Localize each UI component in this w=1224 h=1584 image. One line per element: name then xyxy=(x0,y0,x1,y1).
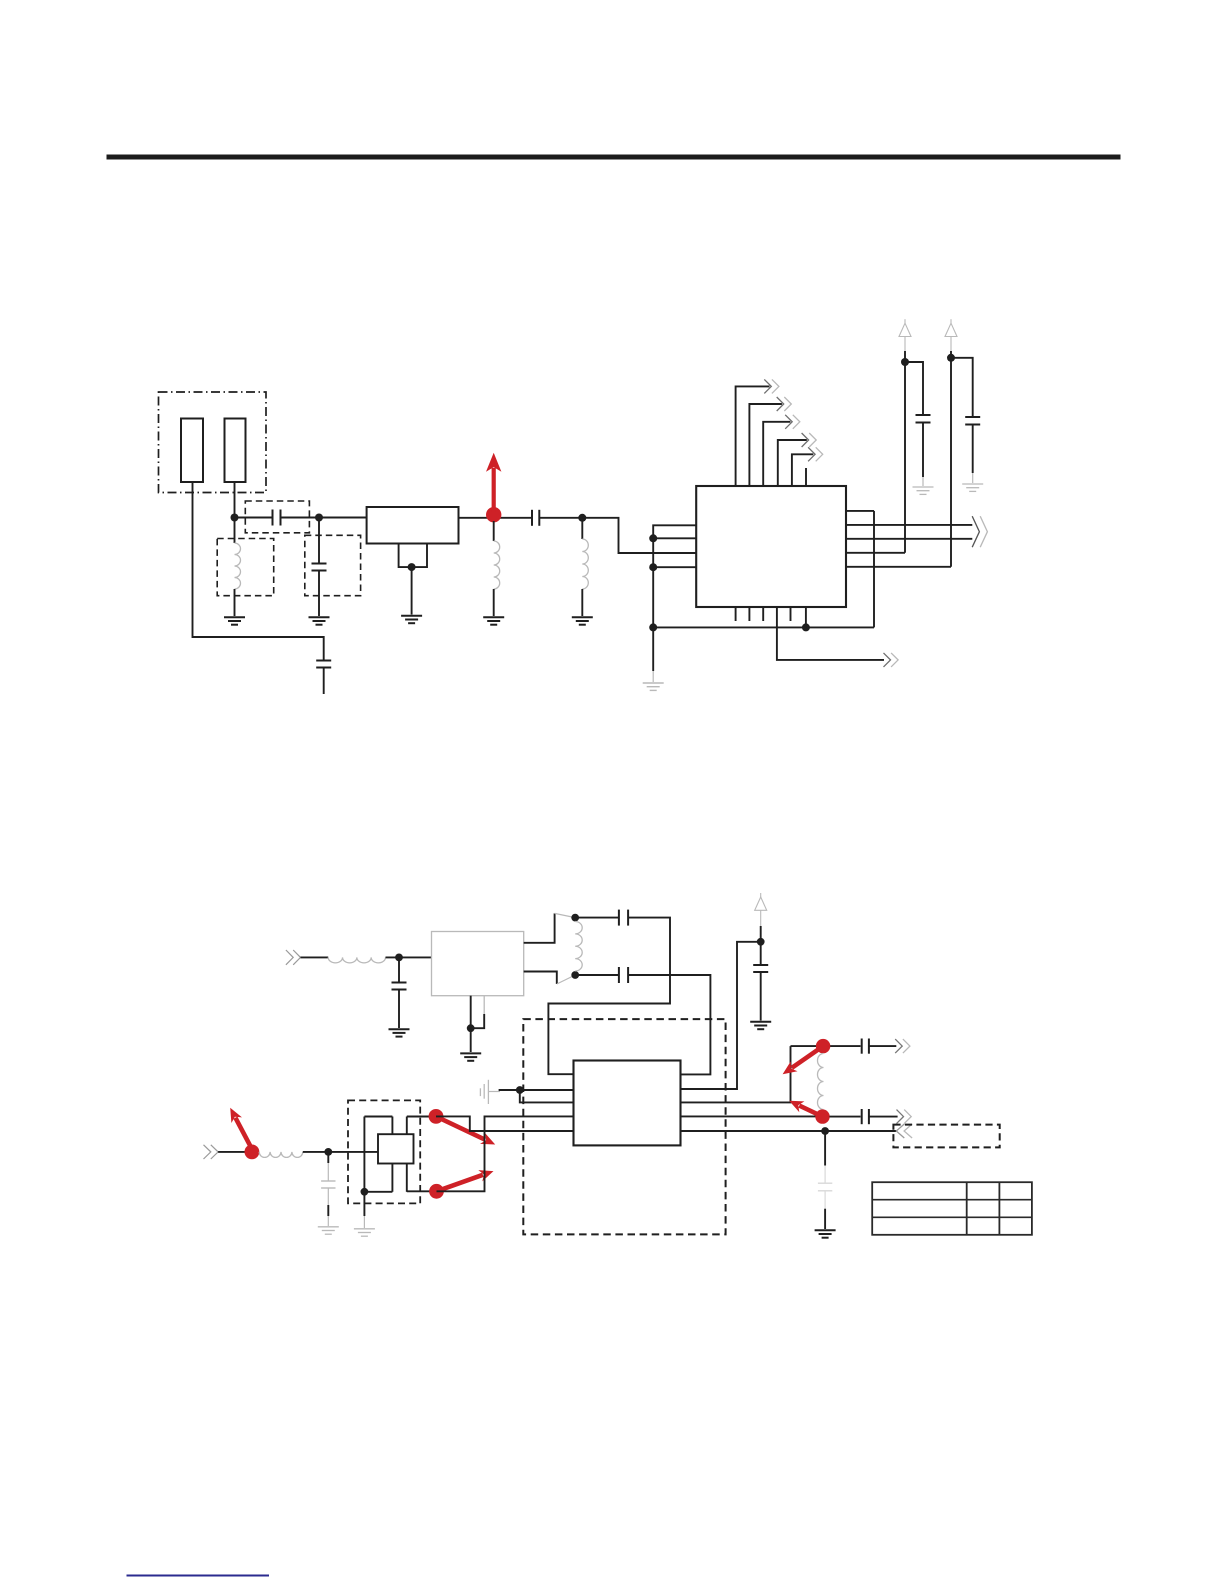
node N7 junction xyxy=(649,623,657,631)
wire N2 to C2 xyxy=(318,521,320,564)
test point TP6 (red) xyxy=(815,1109,829,1123)
crystal top rail xyxy=(364,1116,392,1118)
wire FL1 to N3 xyxy=(459,517,533,519)
wire ANT1 to C4 xyxy=(193,482,324,660)
Y1 bottom-left lead xyxy=(391,1164,393,1192)
wire V3 to N15 xyxy=(760,926,762,942)
ground for FL2 xyxy=(460,1053,481,1060)
wire C13 to connector xyxy=(869,1116,898,1118)
wire C14 to ground xyxy=(824,1191,826,1229)
ground for C10 xyxy=(750,1022,771,1029)
node N4 junction xyxy=(578,514,586,522)
node N19 junction xyxy=(821,1127,829,1135)
ground for Y1 (gray) xyxy=(354,1229,375,1236)
wire N4 to U1 pin xyxy=(582,518,696,553)
capacitor C11 (gray shunt) xyxy=(321,1181,335,1188)
test point TP2 (red) xyxy=(245,1145,260,1160)
transformer T1 winding xyxy=(575,922,582,972)
connector chevron OUT2 xyxy=(897,1110,912,1124)
wire TP4 to U2 pin3 xyxy=(437,1116,574,1191)
wire N17 to crystal Y1 xyxy=(328,1151,378,1153)
power flag V2 xyxy=(945,319,957,351)
crystal Y1 box xyxy=(378,1134,414,1163)
connector chevron T3 xyxy=(785,415,800,429)
wire N2 to FL1 xyxy=(319,517,367,519)
wire bus mid xyxy=(652,538,654,567)
FL1 ground tab xyxy=(399,544,427,568)
wire C3 to N4 xyxy=(539,517,582,519)
U1 right pin 4 wire xyxy=(846,552,905,554)
U1 top pin 1 wire xyxy=(736,386,770,486)
connector chevron OUT3 (left) xyxy=(896,1124,912,1138)
red arrow at TP6 xyxy=(789,1101,822,1117)
wire C2 to ground xyxy=(318,571,320,617)
footer link underline xyxy=(127,1575,270,1577)
inductor L1 (shunt) xyxy=(235,543,241,589)
node N17 junction xyxy=(324,1148,332,1156)
ground for L3 xyxy=(572,617,593,624)
U1 bottom pin 4 wire to connector xyxy=(777,607,884,660)
wire N1 to C1 xyxy=(235,517,273,519)
dashed box around C2 xyxy=(305,535,361,595)
test point TP3 (red) xyxy=(429,1109,444,1124)
wire N18 to ground xyxy=(363,1192,365,1228)
wire C1 to N2 xyxy=(281,517,320,519)
wire C10 to ground xyxy=(760,972,762,1021)
node N18 junction xyxy=(361,1188,369,1196)
ground for C6 (gray) xyxy=(962,484,983,491)
connector chevron IN1 xyxy=(286,950,301,965)
node N2 junction xyxy=(315,514,323,522)
node on FL1 tab xyxy=(408,563,416,571)
wire N16 to U2 pin1 xyxy=(520,1089,574,1091)
node N15 junction xyxy=(757,938,765,946)
inductor L5 (series) xyxy=(259,1152,303,1158)
crystal cap rail left xyxy=(363,1117,365,1192)
node N8 junction xyxy=(802,623,810,631)
U1 top pin 5 wire xyxy=(792,454,813,486)
connector chevron T4 xyxy=(802,433,817,447)
node N10 junction xyxy=(947,354,955,362)
wire C9 to U2 right xyxy=(628,975,710,1074)
wire N15 to C10 xyxy=(760,942,762,965)
FL2 bottom lead 1 xyxy=(470,996,472,1028)
test point TP1 (red) xyxy=(486,507,501,522)
ground for C5 (gray) xyxy=(913,487,934,494)
red arrow at TP2 xyxy=(230,1108,252,1149)
connector chevron OUT1 xyxy=(895,1039,910,1053)
capacitor C13 (series) xyxy=(862,1109,869,1124)
wire C12 to connector xyxy=(869,1045,896,1047)
transformer T1 top link (gray) xyxy=(555,913,576,917)
tuner IC U1 xyxy=(696,486,846,607)
capacitor C9 (series) xyxy=(619,967,628,983)
ground for L2 xyxy=(483,617,504,624)
power flag V1 xyxy=(899,319,911,351)
connector chevron IF out xyxy=(884,653,899,667)
capacitor C2 (shunt) xyxy=(312,564,327,571)
FL2 output lead bottom xyxy=(524,972,557,985)
U1 right pin 1 wire xyxy=(846,510,874,512)
wire ANT2 down xyxy=(234,482,236,518)
ground for FL1 xyxy=(401,616,422,623)
ground for L1 xyxy=(224,617,245,624)
wire rail riser xyxy=(873,511,875,628)
U1 bottom pin stub 6 xyxy=(805,607,807,627)
node N13 junction xyxy=(571,914,579,922)
capacitor C14 (light gray) xyxy=(818,1183,832,1191)
wire C6 to ground xyxy=(972,425,974,484)
wire C11 to ground (mixed) xyxy=(327,1188,329,1226)
connector chevron T5 xyxy=(808,447,823,461)
U1 bottom pin stub 2 xyxy=(748,607,750,621)
power rail 2 riser xyxy=(950,351,952,567)
crystal bottom rail xyxy=(364,1191,392,1193)
demod IC U2 xyxy=(574,1061,681,1146)
parts table xyxy=(872,1182,1032,1235)
node N1 junction xyxy=(231,514,239,522)
node N11 junction xyxy=(395,954,403,962)
antenna module box (dash-dot) xyxy=(159,392,267,493)
Y1 top-right lead xyxy=(406,1117,408,1135)
U1 bottom pin stub 3 xyxy=(762,607,764,621)
SAW filter FL1 xyxy=(367,507,459,544)
test point TP5 (red) xyxy=(816,1039,830,1053)
wire N19 to C14 xyxy=(824,1131,826,1183)
wire N7 to ground xyxy=(652,627,654,682)
capacitor C7 (shunt) xyxy=(392,983,407,990)
test point TP4 (red) xyxy=(429,1184,444,1199)
wire N9 to C5 xyxy=(905,362,923,415)
U2 pin wire to TP6 xyxy=(681,1115,816,1117)
wire IN2 to L5 xyxy=(218,1151,252,1153)
red arrow at TP5 xyxy=(783,1046,824,1074)
red arrow at TP3 xyxy=(436,1116,495,1144)
wire N14 to C9 xyxy=(575,974,618,976)
ground for C14 xyxy=(815,1230,836,1237)
wire TP3 to U2 pin4 xyxy=(436,1116,574,1131)
node N5 junction xyxy=(649,534,657,542)
wire bus top to U1 xyxy=(653,525,696,538)
header rule xyxy=(107,155,1121,160)
wire L5 to N17 xyxy=(303,1151,329,1153)
wire N17 to C11 (part gray) xyxy=(327,1152,329,1181)
wire N13 to C8 xyxy=(575,917,618,919)
dashed box around C1 xyxy=(245,501,309,533)
wire N16 to U2 pin2 xyxy=(520,1090,574,1102)
power rail 1 riser xyxy=(904,351,906,553)
capacitor C6 (decoupling) xyxy=(965,417,980,425)
wire N5 to U1 xyxy=(653,537,696,539)
U1 top pin 6 stub xyxy=(805,468,807,486)
wire N6 to U1 xyxy=(653,566,696,568)
wire riser to C12 xyxy=(791,1045,861,1047)
capacitor C4 (open-ended) xyxy=(316,661,331,695)
Y1 bottom-right lead xyxy=(406,1164,408,1192)
inductor L6 (gray) xyxy=(818,1054,824,1110)
wire bus to N7 xyxy=(652,567,654,627)
ground for U1 bus (gray) xyxy=(643,683,664,690)
node N16 junction xyxy=(516,1086,524,1094)
option dashed box xyxy=(893,1125,999,1148)
signal ground symbol (gray, sideways) xyxy=(480,1080,500,1104)
capacitor C12 (series) xyxy=(862,1039,869,1054)
crystal dashed box xyxy=(348,1100,420,1203)
U1 bottom pin stub 1 xyxy=(735,607,737,621)
wire L4 to N11 xyxy=(386,956,432,958)
node N6 junction xyxy=(649,563,657,571)
Y1 top-left lead xyxy=(391,1117,393,1135)
capacitor C3 (series) xyxy=(532,510,539,526)
connector chevron IN2 xyxy=(204,1145,219,1159)
power flag V3 xyxy=(755,893,767,926)
wire L1 to ground xyxy=(234,589,236,616)
wire N1 to L1 xyxy=(234,521,236,543)
transformer T1 bottom link (gray) xyxy=(557,975,575,984)
wire N15 to U2 power pin xyxy=(681,942,761,1089)
wire Y1 bottom to TP4 xyxy=(407,1190,437,1192)
wire Y1 top to TP3 xyxy=(407,1116,436,1118)
ground for C7 xyxy=(389,1029,410,1036)
wire C8 to U2 (osc loop) xyxy=(548,918,670,1075)
connector chevron T2 xyxy=(777,397,792,411)
wire C7 to ground xyxy=(398,990,400,1029)
wire FL1 tab to ground xyxy=(411,567,413,614)
module dashed box xyxy=(523,1019,725,1234)
wire N12 to ground xyxy=(470,1028,472,1052)
U1 top pin 3 wire xyxy=(763,422,790,486)
node N14 junction xyxy=(571,971,579,979)
wire C5 to ground xyxy=(922,423,924,487)
connector chevron T1 xyxy=(764,379,779,393)
antenna element ANT2 xyxy=(225,419,246,483)
U1 bottom pin stub 5 xyxy=(790,607,792,621)
U1 right pin 2 wire xyxy=(846,524,972,526)
wire N10 to C6 xyxy=(951,358,973,417)
antenna element ANT1 xyxy=(181,419,203,483)
U2 pin wire to riser xyxy=(681,1046,791,1102)
red arrow at TP4 xyxy=(437,1170,494,1191)
FL2 output lead top xyxy=(524,913,555,942)
red arrow at TP1 xyxy=(486,453,501,512)
capacitor C8 (series) xyxy=(619,910,628,926)
inductor L4 (series) xyxy=(328,957,385,963)
capacitor C10 (decoupling) xyxy=(753,965,768,972)
inductor L3 (shunt) xyxy=(582,521,588,616)
wire bottom rail xyxy=(653,626,874,628)
FL2 bottom lead 2 (gray) xyxy=(471,996,485,1028)
filter FL2 (gray box) xyxy=(432,932,524,996)
wire sideways-gnd to N16 xyxy=(499,1089,520,1091)
U1 right pin 3 wire xyxy=(846,538,972,540)
dashed box around L1 xyxy=(217,539,274,596)
node N12 junction xyxy=(467,1024,475,1032)
inductor L2 (shunt) xyxy=(494,541,500,589)
ground for C2 xyxy=(309,617,330,624)
U1 right pin 5 wire xyxy=(846,566,951,568)
wire L2 to ground xyxy=(493,589,495,616)
U1 top pin 2 wire xyxy=(749,404,782,486)
node N9 junction xyxy=(901,358,909,366)
wire IN1 to L4 xyxy=(301,956,329,958)
capacitor C1 (series) xyxy=(273,510,281,526)
bus connector chevron (right) xyxy=(972,516,987,547)
wire TP1 to L2 xyxy=(493,521,495,541)
U2 pin wire bottom xyxy=(681,1130,897,1132)
ground for C11 (gray) xyxy=(318,1227,339,1234)
wire TP6 to C13 xyxy=(830,1116,861,1118)
wire N11 to C7 xyxy=(398,957,400,982)
capacitor C5 (decoupling) xyxy=(916,415,931,423)
U1 top pin 4 wire xyxy=(778,440,807,486)
